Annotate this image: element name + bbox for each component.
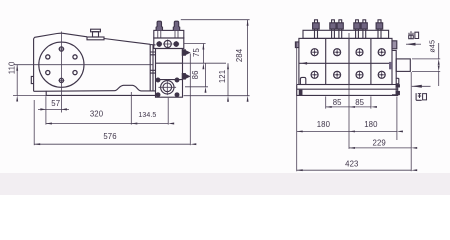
head cover/valve band — [154, 38, 184, 49]
chinese label outlet (chu kou) drawn as strokes — [409, 31, 427, 100]
dim 85 ext left — [325, 96, 327, 108]
dim 320/134.5 ext right — [167, 98, 169, 125]
valve circle r2c3 — [356, 71, 363, 78]
bolt hole upper-right — [73, 55, 77, 59]
dim 229 ext right (shaft end) — [410, 72, 412, 171]
head mid line — [156, 62, 183, 64]
bolt hole upper-left — [46, 55, 50, 59]
left side tab — [295, 42, 299, 48]
foot base plate — [46, 91, 156, 96]
svg-text:86: 86 — [191, 70, 200, 79]
glyph kou (inlet) — [423, 94, 427, 100]
stud pair col2 b — [338, 20, 342, 39]
dim 85 line b — [349, 106, 371, 108]
flange circle — [39, 42, 84, 87]
base line mid — [297, 88, 398, 90]
bottom scan band — [0, 173, 450, 195]
stud col1 — [314, 20, 318, 39]
bolt hole lower-right — [73, 71, 77, 75]
left lug — [300, 77, 305, 84]
head stud 1 dome — [156, 21, 162, 30]
svg-text:423: 423 — [345, 160, 358, 169]
head corner bolt 1 — [156, 78, 160, 82]
valve center dots — [314, 51, 383, 76]
bolt hole bottom — [59, 78, 63, 82]
dim 57 ext left — [45, 96, 47, 112]
dim 284 ext top — [181, 19, 250, 21]
valve circle r1c2 — [334, 49, 341, 56]
head stud 1 shank — [158, 30, 161, 38]
svg-text:85: 85 — [333, 98, 342, 107]
inlet arrow — [412, 85, 431, 87]
outlet arrow — [406, 43, 421, 45]
dim 180 ext left — [296, 42, 298, 171]
dim 423 line — [297, 169, 412, 171]
dim 85 line a — [326, 106, 349, 108]
dim 134.5 line — [131, 123, 168, 125]
right small tab b — [396, 92, 399, 95]
valve circle r1c3 — [356, 49, 363, 56]
dim 75 ext top — [184, 43, 206, 45]
valve row center circle — [164, 40, 171, 47]
stud pair col3 b — [362, 20, 366, 39]
valve circle r2c1 — [311, 71, 318, 78]
shaft — [396, 59, 410, 72]
svg-text:121: 121 — [218, 70, 227, 83]
dimension texts right view — [317, 40, 437, 169]
base outline — [297, 85, 398, 96]
head corner bolt 3 — [156, 93, 160, 97]
left side plug tab — [31, 76, 34, 83]
valve row small circle right — [174, 42, 178, 46]
dim 284 line — [247, 20, 249, 96]
svg-text:57: 57 — [51, 99, 60, 108]
svg-text:110: 110 — [7, 61, 16, 74]
dim 320/134.5 ext mid — [130, 92, 132, 125]
dim 85 ext right — [370, 96, 372, 108]
spacer verticals between body and head — [150, 44, 155, 91]
vertical centerline right view — [348, 33, 350, 149]
head corner bolt 2 — [175, 78, 179, 82]
crankcase body outline — [34, 33, 151, 91]
valve circle r1c4 — [378, 49, 385, 56]
plunger gland lines — [150, 52, 156, 73]
bottom ext for 121/284 — [184, 95, 250, 97]
dim 320/134.5 ext left — [45, 113, 47, 125]
svg-text:ø45: ø45 — [428, 40, 437, 53]
head mid line ext right — [182, 62, 226, 64]
dim 180 ext right — [396, 97, 398, 141]
svg-text:180: 180 — [364, 120, 378, 129]
dim 75 line — [202, 44, 204, 64]
mid horizontal line — [299, 62, 392, 64]
dimension texts left view — [7, 48, 244, 141]
dim 180 line b — [349, 130, 397, 132]
port cross lines — [159, 80, 177, 96]
body bottom edge with notch — [34, 85, 156, 91]
right lug — [396, 78, 399, 84]
side fitting upper — [182, 50, 185, 55]
thin lines: centerlines and extension/dimension lines — [13, 20, 250, 146]
dim 180 line a — [297, 130, 349, 132]
svg-text:180: 180 — [317, 120, 331, 129]
stud pair col3 a — [355, 20, 359, 39]
divider 2 — [348, 38, 350, 84]
oil filler cap base — [87, 37, 104, 40]
cross mark top bolt hole — [58, 46, 64, 52]
right view dims — [297, 33, 441, 171]
head lower square line — [156, 79, 183, 81]
valve circle r1c1 — [311, 49, 318, 56]
dim 576 ext right — [189, 54, 191, 146]
svg-text:284: 284 — [235, 48, 244, 62]
base line upper — [297, 84, 398, 86]
valve circle r2c4 — [378, 71, 385, 78]
head top cover upper — [154, 30, 184, 38]
cross mark bottom bolt hole — [58, 77, 64, 83]
valve circle r2c2 — [334, 71, 341, 78]
bolt hole lower-left — [46, 71, 50, 75]
svg-text:134.5: 134.5 — [138, 112, 156, 119]
right small tab a — [396, 85, 399, 87]
dim 576 line — [34, 143, 190, 145]
cross r1c1 — [311, 48, 319, 56]
side fitting lower — [182, 74, 185, 79]
svg-text:320: 320 — [90, 110, 104, 119]
midline left arrow — [301, 62, 307, 65]
left foot pad — [299, 90, 302, 94]
divider 3 — [370, 38, 372, 84]
stud col4 — [378, 20, 382, 39]
oil filler cap top — [91, 29, 101, 32]
dia45 ext top — [412, 58, 440, 60]
dim 86 line — [205, 63, 207, 87]
dim 320 line — [46, 123, 131, 125]
dia45 ext bottom — [412, 70, 440, 72]
dim 110 line — [16, 65, 18, 96]
svg-text:229: 229 — [373, 138, 386, 147]
glyph kou (outlet) — [415, 32, 419, 38]
svg-text:75: 75 — [192, 48, 201, 57]
head stud 2 shank — [175, 30, 178, 38]
head big port circle — [161, 81, 174, 94]
glyph chu — [409, 31, 414, 38]
top cover strip — [303, 30, 389, 38]
dim 57 line — [38, 108, 69, 110]
svg-text:85: 85 — [355, 98, 364, 107]
divider 1 — [325, 38, 327, 84]
horizontal centerline left view — [14, 64, 153, 66]
bolt hole top — [59, 47, 63, 51]
dim 121 line — [227, 63, 229, 95]
stud pair col2 a — [331, 20, 335, 39]
oil filler cap neck — [93, 32, 99, 37]
valve circle crosses row1 and row2 — [311, 48, 386, 79]
glyph jin — [416, 93, 422, 100]
head block (left view) — [156, 49, 183, 98]
manifold main block — [299, 38, 392, 84]
svg-text:576: 576 — [103, 132, 116, 141]
valve row small circle left — [157, 42, 161, 46]
right flange plate — [392, 51, 396, 95]
dim 110 extension bottom — [13, 95, 46, 97]
dim 576 ext left — [33, 100, 35, 145]
dia45 dim line — [438, 43, 440, 59]
right side tab — [392, 41, 397, 49]
dim 86 ext bottom (port centerline ext) — [185, 86, 208, 88]
head corner bolt 4 — [175, 93, 179, 97]
bearing shade — [389, 62, 392, 69]
vertical centerline flange — [60, 32, 62, 113]
head stud 2 dome — [173, 21, 179, 30]
dim 229 line — [349, 147, 411, 149]
